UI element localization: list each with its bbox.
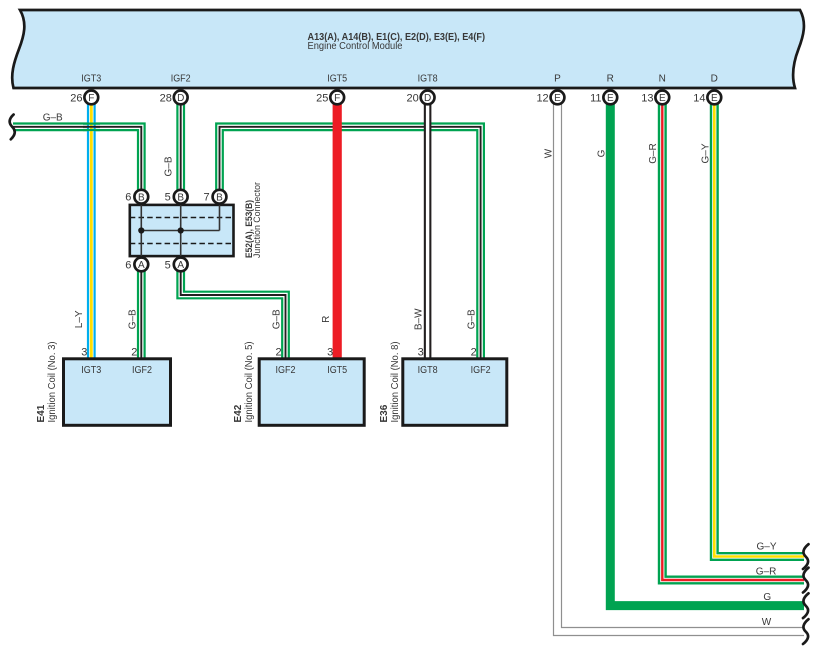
svg-text:N: N xyxy=(659,74,666,85)
svg-text:E: E xyxy=(659,93,666,104)
svg-text:13: 13 xyxy=(641,92,653,104)
svg-text:B: B xyxy=(216,193,223,204)
svg-text:12: 12 xyxy=(536,92,548,104)
svg-text:G: G xyxy=(763,592,771,603)
svg-text:Ignition Coil (No. 3): Ignition Coil (No. 3) xyxy=(47,342,58,423)
svg-text:G–B: G–B xyxy=(127,309,138,329)
svg-text:2: 2 xyxy=(275,346,281,358)
svg-text:IGF2: IGF2 xyxy=(471,365,491,376)
svg-text:A: A xyxy=(138,260,145,271)
svg-text:G–R: G–R xyxy=(648,143,659,164)
svg-text:B: B xyxy=(138,193,145,204)
svg-text:11: 11 xyxy=(590,92,601,104)
svg-text:D: D xyxy=(177,93,184,104)
svg-text:Engine Control Module: Engine Control Module xyxy=(308,40,403,52)
svg-text:D: D xyxy=(711,74,718,85)
svg-text:F: F xyxy=(88,93,94,104)
svg-text:20: 20 xyxy=(407,92,419,104)
svg-text:IGT5: IGT5 xyxy=(327,365,347,376)
svg-text:28: 28 xyxy=(160,92,172,104)
svg-text:7: 7 xyxy=(203,192,209,204)
svg-text:2: 2 xyxy=(471,346,477,358)
svg-text:G–Y: G–Y xyxy=(701,143,712,163)
svg-text:G–B: G–B xyxy=(272,309,283,329)
svg-text:W: W xyxy=(544,148,555,158)
svg-text:6: 6 xyxy=(125,259,131,271)
svg-text:E: E xyxy=(554,93,561,104)
svg-text:5: 5 xyxy=(165,192,171,204)
svg-text:G–B: G–B xyxy=(467,309,478,329)
svg-text:W: W xyxy=(762,617,772,628)
svg-text:3: 3 xyxy=(418,346,424,358)
svg-text:Ignition Coil (No. 8): Ignition Coil (No. 8) xyxy=(390,342,401,423)
svg-text:14: 14 xyxy=(693,92,705,104)
svg-text:E36: E36 xyxy=(379,404,390,422)
svg-text:F: F xyxy=(334,93,340,104)
svg-text:Junction Connector: Junction Connector xyxy=(252,182,263,258)
svg-text:R: R xyxy=(321,316,332,323)
svg-text:E: E xyxy=(711,93,718,104)
svg-text:IGF2: IGF2 xyxy=(276,365,296,376)
svg-text:6: 6 xyxy=(125,192,131,204)
svg-text:R: R xyxy=(607,74,614,85)
svg-text:G–B: G–B xyxy=(164,156,175,176)
svg-text:IGT3: IGT3 xyxy=(81,74,101,85)
svg-text:G–B: G–B xyxy=(43,112,63,123)
svg-text:D: D xyxy=(424,93,431,104)
svg-text:IGF2: IGF2 xyxy=(171,74,191,85)
svg-text:3: 3 xyxy=(81,346,87,358)
svg-text:5: 5 xyxy=(165,259,171,271)
svg-text:IGF2: IGF2 xyxy=(132,365,152,376)
svg-text:25: 25 xyxy=(316,92,328,104)
svg-text:IGT5: IGT5 xyxy=(327,74,347,85)
svg-text:26: 26 xyxy=(70,92,82,104)
svg-text:IGT8: IGT8 xyxy=(418,365,438,376)
svg-text:P: P xyxy=(554,74,561,85)
svg-text:L–Y: L–Y xyxy=(74,310,85,328)
svg-text:2: 2 xyxy=(131,346,137,358)
svg-text:A: A xyxy=(177,260,184,271)
svg-text:3: 3 xyxy=(327,346,333,358)
svg-text:E42: E42 xyxy=(233,404,244,422)
svg-text:IGT3: IGT3 xyxy=(81,365,101,376)
svg-text:B–W: B–W xyxy=(414,308,425,330)
svg-text:G: G xyxy=(596,149,607,157)
svg-text:E: E xyxy=(607,93,614,104)
svg-text:E41: E41 xyxy=(36,404,47,422)
svg-text:G–Y: G–Y xyxy=(757,542,777,553)
svg-text:IGT8: IGT8 xyxy=(418,74,438,85)
svg-text:B: B xyxy=(177,193,184,204)
svg-text:Ignition Coil (No. 5): Ignition Coil (No. 5) xyxy=(244,342,255,423)
svg-text:G–R: G–R xyxy=(756,567,777,578)
